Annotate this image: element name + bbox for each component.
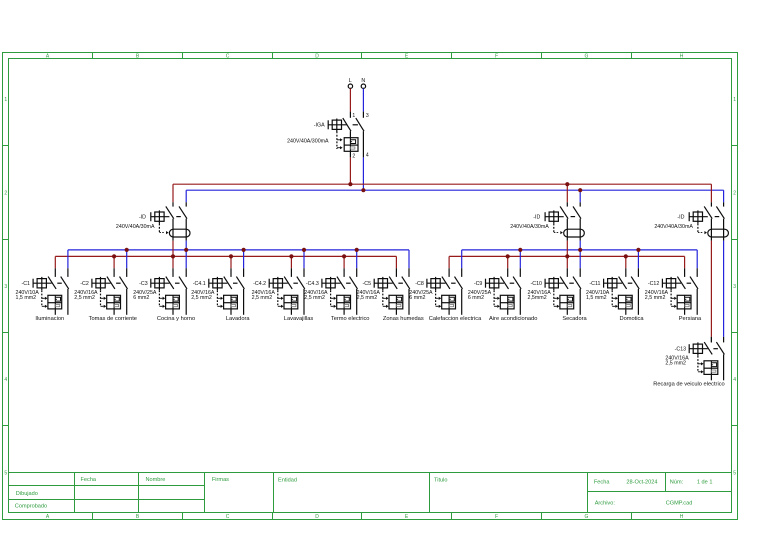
svg-text:Titulo: Titulo (434, 478, 447, 484)
svg-text:H: H (680, 54, 684, 60)
svg-text:F: F (495, 54, 498, 60)
svg-text:Aire acondicionado: Aire acondicionado (489, 316, 537, 322)
svg-text:2: 2 (733, 190, 736, 196)
svg-text:-C1: -C1 (21, 281, 30, 287)
svg-text:3: 3 (366, 113, 369, 119)
svg-text:Zonas humedas: Zonas humedas (383, 316, 424, 322)
svg-text:-C3: -C3 (139, 281, 148, 287)
svg-text:28-Oct-2024: 28-Oct-2024 (626, 480, 657, 486)
svg-text:Firmas: Firmas (212, 477, 229, 483)
svg-text:240V/40A/300mA: 240V/40A/300mA (287, 139, 329, 145)
svg-text:1: 1 (733, 97, 736, 103)
svg-text:2,5 mm2: 2,5 mm2 (191, 295, 212, 301)
svg-text:Domotica: Domotica (619, 316, 644, 322)
svg-text:Termo electrico: Termo electrico (331, 316, 370, 322)
svg-text:D: D (315, 54, 319, 60)
svg-text:Entidad: Entidad (278, 478, 297, 484)
svg-text:Comprobado: Comprobado (15, 503, 47, 509)
svg-text:Calefaccion electrica: Calefaccion electrica (429, 316, 482, 322)
svg-text:5: 5 (4, 470, 7, 476)
svg-text:-C13: -C13 (675, 346, 687, 352)
svg-text:240V/40A/30mA: 240V/40A/30mA (116, 224, 155, 230)
svg-text:Secadora: Secadora (562, 316, 587, 322)
svg-text:6 mm2: 6 mm2 (468, 295, 484, 301)
svg-text:Nombre: Nombre (146, 477, 166, 483)
svg-text:240V/40A/30mA: 240V/40A/30mA (654, 224, 693, 230)
svg-text:Iluminacion: Iluminacion (35, 316, 64, 322)
svg-text:2,5 mm2: 2,5 mm2 (665, 361, 686, 367)
svg-text:2: 2 (4, 190, 7, 196)
svg-text:3: 3 (4, 284, 7, 290)
svg-text:Fecha: Fecha (594, 480, 610, 486)
svg-text:-C10: -C10 (531, 281, 543, 287)
svg-text:-ID: -ID (677, 214, 684, 220)
svg-text:2: 2 (352, 153, 355, 159)
svg-text:2,5 mm2: 2,5 mm2 (304, 295, 325, 301)
svg-text:Archivo:: Archivo: (595, 500, 616, 506)
svg-text:-C4.3: -C4.3 (306, 281, 319, 287)
svg-text:C: C (226, 514, 230, 520)
svg-text:C: C (226, 54, 230, 60)
svg-text:Cocina y horno: Cocina y horno (157, 316, 195, 322)
svg-text:Recarga de veiculo electrico: Recarga de veiculo electrico (653, 381, 724, 387)
svg-text:-C2: -C2 (80, 281, 89, 287)
svg-text:Fecha: Fecha (81, 477, 97, 483)
svg-text:4: 4 (4, 377, 7, 383)
svg-text:H: H (680, 514, 684, 520)
svg-text:6 mm2: 6 mm2 (409, 295, 425, 301)
svg-text:-C4.1: -C4.1 (193, 281, 206, 287)
svg-text:L: L (349, 78, 352, 84)
svg-text:-C5: -C5 (363, 281, 372, 287)
svg-text:6 mm2: 6 mm2 (133, 295, 149, 301)
svg-text:-C4.2: -C4.2 (253, 281, 266, 287)
svg-text:2,5 mm2: 2,5 mm2 (357, 295, 378, 301)
svg-text:G: G (585, 54, 589, 60)
svg-text:3: 3 (733, 284, 736, 290)
svg-text:2,5mm2: 2,5mm2 (528, 295, 547, 301)
svg-text:1,5 mm2: 1,5 mm2 (586, 295, 607, 301)
svg-text:4: 4 (733, 377, 736, 383)
svg-text:1: 1 (352, 113, 355, 119)
svg-text:-IGA: -IGA (314, 122, 325, 128)
svg-text:CGMP.cad: CGMP.cad (666, 500, 693, 506)
svg-text:F: F (495, 514, 498, 520)
svg-text:-C11: -C11 (589, 281, 600, 287)
svg-text:-C12: -C12 (648, 281, 660, 287)
svg-text:Lavavajillas: Lavavajillas (284, 316, 314, 322)
svg-text:1,5 mm2: 1,5 mm2 (16, 295, 37, 301)
svg-text:-C8: -C8 (415, 281, 424, 287)
svg-text:-ID: -ID (139, 214, 146, 220)
svg-text:Núm:: Núm: (670, 480, 684, 486)
svg-text:1 de 1: 1 de 1 (697, 480, 713, 486)
svg-text:5: 5 (733, 470, 736, 476)
svg-text:Dibujado: Dibujado (16, 491, 38, 497)
svg-text:2,5 mm2: 2,5 mm2 (252, 295, 273, 301)
svg-text:2,5 mm2: 2,5 mm2 (74, 295, 95, 301)
svg-text:240V/40A/30mA: 240V/40A/30mA (510, 224, 549, 230)
svg-text:2,5 mm2: 2,5 mm2 (645, 295, 666, 301)
svg-text:4: 4 (366, 153, 369, 159)
svg-text:Persiana: Persiana (679, 316, 702, 322)
svg-text:G: G (585, 514, 589, 520)
svg-text:-ID: -ID (533, 214, 540, 220)
svg-text:N: N (361, 78, 365, 84)
svg-text:Tomas de corriente: Tomas de corriente (89, 316, 137, 322)
svg-text:1: 1 (4, 97, 7, 103)
svg-text:D: D (315, 514, 319, 520)
svg-text:-C9: -C9 (474, 281, 483, 287)
svg-text:Lavadora: Lavadora (226, 316, 251, 322)
